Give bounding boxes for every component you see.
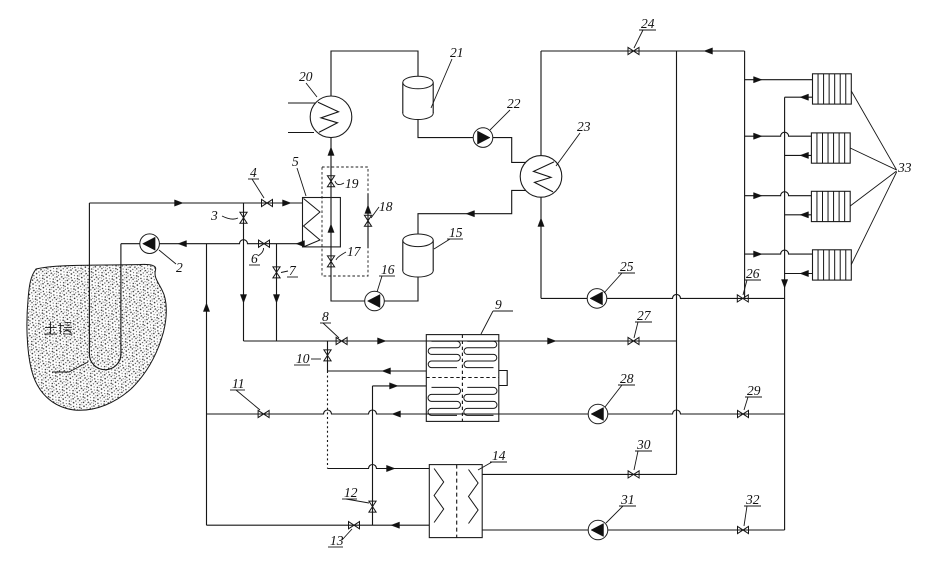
- svg-text:13: 13: [330, 533, 344, 548]
- wire floor return y530: [482, 529, 784, 531]
- heat exchanger 20 stubs: [288, 103, 316, 133]
- wire radiator2 return: [785, 154, 812, 156]
- tank 15: [403, 234, 433, 277]
- node soil mass (stippled ground): [27, 264, 166, 410]
- svg-text:6: 6: [251, 251, 258, 266]
- valve 13: [349, 522, 360, 529]
- wire ground loop supply top: [89, 202, 302, 204]
- heat exchanger 20: [310, 96, 352, 138]
- svg-text:31: 31: [620, 492, 635, 507]
- wire valve7 vertical: [276, 244, 278, 341]
- svg-text:18: 18: [379, 199, 393, 214]
- wire valve12 vertical: [372, 386, 374, 525]
- wire box9 left return: [328, 370, 427, 372]
- valve 19: [327, 176, 334, 187]
- wire valve3 vertical: [243, 203, 245, 341]
- svg-text:25: 25: [620, 259, 634, 274]
- wire valve30 line: [482, 473, 676, 475]
- wire U-tube left leg + bend: [89, 203, 121, 369]
- svg-text:2: 2: [176, 260, 183, 275]
- wire pump2 line: [121, 240, 303, 244]
- valve 3: [240, 212, 247, 223]
- svg-text:33: 33: [897, 160, 912, 175]
- radiator 33c: [811, 191, 850, 221]
- valve 32: [738, 526, 749, 533]
- pump 16: [365, 291, 385, 311]
- pump 25: [587, 289, 607, 309]
- pump 22: [473, 128, 493, 148]
- svg-text:20: 20: [299, 69, 313, 84]
- svg-text:12: 12: [344, 485, 358, 500]
- wire cyl21 to pump22: [418, 120, 473, 138]
- ground U-tube legs inside soil: [89, 265, 121, 370]
- valve 7: [273, 267, 280, 278]
- valve 8: [336, 337, 347, 344]
- wire radiator4 return: [785, 273, 813, 275]
- wire hx23 to cyl15: [418, 190, 528, 234]
- plate heat exchanger 5: [303, 198, 341, 247]
- svg-text:21: 21: [450, 45, 464, 60]
- svg-text:29: 29: [747, 383, 761, 398]
- svg-text:9: 9: [495, 297, 502, 312]
- svg-text:4: 4: [250, 165, 257, 180]
- wire box9 right bracket: [499, 371, 507, 386]
- wire valve10 dotted drop: [327, 371, 329, 469]
- svg-text:10: 10: [296, 351, 310, 366]
- pump 31: [588, 520, 608, 540]
- heat exchanger 23: [520, 156, 562, 198]
- svg-text:19: 19: [345, 176, 359, 191]
- svg-text:22: 22: [507, 96, 521, 111]
- svg-text:27: 27: [637, 308, 652, 323]
- pump 28: [588, 404, 608, 424]
- wire valve18 segment: [367, 194, 369, 248]
- wire center vertical 676: [676, 51, 678, 474]
- valve 11: [258, 410, 269, 417]
- svg-text:23: 23: [577, 119, 591, 134]
- valve 18: [364, 215, 371, 226]
- wire box9 left supply: [373, 385, 427, 387]
- wire box14 top feed: [328, 465, 430, 469]
- radiator 33a: [813, 74, 852, 104]
- valve 10: [324, 350, 331, 361]
- heat-exchange unit 9: [426, 335, 499, 422]
- svg-text:14: 14: [492, 448, 506, 463]
- wire valve10 vertical: [327, 341, 329, 371]
- valve 30: [628, 471, 639, 478]
- wire radiator1 return: [785, 96, 813, 98]
- valve 4: [262, 199, 273, 206]
- wire radiator1 supply: [745, 79, 813, 81]
- radiator 33d: [813, 250, 852, 280]
- valve 24: [628, 47, 639, 54]
- wire big rect right edge: [744, 51, 746, 298]
- valve 27: [628, 337, 639, 344]
- wire big rect top edge: [541, 50, 745, 52]
- valve 12: [369, 501, 376, 512]
- valve 17: [327, 256, 334, 267]
- svg-text:30: 30: [636, 437, 651, 452]
- wire box14 bottom return: [207, 524, 430, 526]
- valve 6: [259, 240, 270, 247]
- flow arrows: [175, 48, 809, 529]
- pump 2: [140, 234, 160, 254]
- tank 21: [403, 76, 433, 119]
- svg-text:26: 26: [746, 266, 760, 281]
- wire radiator4 supply: [745, 250, 813, 254]
- radiator 33b: [811, 133, 850, 163]
- svg-text:24: 24: [641, 16, 655, 31]
- node dashed unit box: [322, 167, 368, 276]
- wire pump22 to hx23: [493, 138, 529, 163]
- wire hx20 top loop: [331, 51, 418, 96]
- wire radiator3 supply: [745, 192, 812, 196]
- wire hx20 riser: [331, 137, 418, 301]
- wire main cross line y414: [207, 410, 785, 414]
- wire left return vertical: [206, 244, 208, 526]
- svg-text:15: 15: [449, 225, 463, 240]
- svg-text:11: 11: [232, 376, 245, 391]
- svg-text:16: 16: [381, 262, 395, 277]
- wire big rect bottom edge: [541, 294, 785, 298]
- wire right vertical 785: [784, 97, 786, 530]
- wire big rect left edge: [540, 51, 542, 298]
- valve 29: [738, 410, 749, 417]
- wire node-341 line: [244, 340, 677, 342]
- svg-text:32: 32: [745, 492, 760, 507]
- svg-text:28: 28: [620, 371, 634, 386]
- heat exchanger 14: [429, 465, 482, 538]
- wire radiator2 supply: [745, 132, 812, 136]
- wire radiator3 return: [785, 214, 812, 216]
- svg-text:8: 8: [322, 309, 329, 324]
- svg-text:3: 3: [210, 208, 218, 223]
- valve 26: [737, 295, 748, 302]
- svg-text:17: 17: [347, 244, 362, 259]
- svg-text:5: 5: [292, 154, 299, 169]
